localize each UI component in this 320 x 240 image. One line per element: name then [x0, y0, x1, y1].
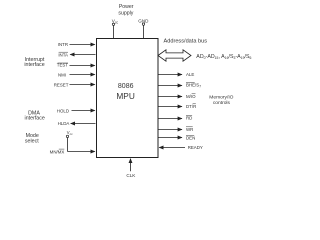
wire WR: [158, 129, 182, 131]
svg-text:AD0-AD15, A16/S3-A19/S6: AD0-AD15, A16/S3-A19/S6: [196, 54, 251, 60]
svg-text:NMI: NMI: [58, 73, 66, 78]
CPU block 8086 MPU U1: [97, 39, 159, 158]
wire NMI: [70, 74, 95, 76]
svg-text:MPU: MPU: [116, 91, 134, 101]
group label Memory/IO controls: [209, 95, 233, 106]
svg-text:RESET: RESET: [54, 83, 69, 88]
wire RESET: [70, 84, 95, 86]
svg-text:BHE/S7: BHE/S7: [186, 83, 201, 89]
pin label TEST: [57, 63, 69, 68]
svg-text:CLK: CLK: [126, 173, 136, 178]
power terminal GND: [138, 18, 149, 38]
svg-text:interface: interface: [25, 116, 45, 122]
group label Mode select: [25, 133, 39, 144]
svg-text:WR: WR: [186, 127, 193, 132]
power terminal Vcc: [112, 18, 119, 38]
wire M/IO: [158, 96, 182, 98]
svg-text:DEN: DEN: [186, 136, 195, 141]
svg-text:GND: GND: [138, 18, 149, 23]
wire INTR: [70, 44, 95, 46]
svg-text:select: select: [25, 138, 39, 144]
svg-text:Address/data bus: Address/data bus: [164, 38, 208, 44]
group label Interrupt interface: [24, 57, 45, 68]
wire HOLD: [72, 110, 95, 112]
wire INTA: [70, 54, 95, 56]
svg-text:READY: READY: [188, 145, 203, 150]
svg-text:MN/MX: MN/MX: [50, 149, 65, 154]
svg-text:HOLD: HOLD: [57, 109, 69, 114]
svg-text:HLDA: HLDA: [58, 121, 70, 126]
svg-text:TEST: TEST: [57, 63, 69, 68]
svg-text:interface: interface: [24, 62, 44, 68]
group label DMA interface: [25, 111, 45, 122]
wire RD: [158, 118, 182, 120]
wire TEST: [70, 65, 95, 67]
label Power supply: [118, 4, 133, 16]
pin label DT/R: [186, 104, 196, 109]
wire DT/R: [158, 106, 182, 108]
pin label DEN: [186, 136, 195, 141]
bus arrow AD bus: [158, 50, 191, 61]
pin label BHE/S7: [186, 83, 201, 89]
wire MN/MX: [68, 151, 95, 153]
svg-text:M/IO: M/IO: [186, 94, 196, 99]
pin label WR: [186, 127, 193, 132]
svg-text:INTR: INTR: [58, 42, 68, 47]
pin label INTA: [58, 52, 68, 57]
svg-text:INTA: INTA: [58, 52, 68, 57]
svg-text:DT/R: DT/R: [186, 104, 196, 109]
svg-text:RD: RD: [186, 116, 192, 121]
wire CLK: [130, 159, 132, 172]
wire ALE: [158, 74, 182, 76]
pin label MN/MX: [50, 149, 65, 154]
wire BHE/S7: [158, 85, 182, 87]
svg-text:controls: controls: [213, 100, 231, 106]
power terminal Vcc at MN/MX: [66, 130, 73, 152]
wire DEN: [158, 137, 182, 139]
svg-text:supply: supply: [118, 10, 133, 16]
svg-text:8086: 8086: [118, 83, 134, 90]
pin label M/IO: [186, 94, 196, 99]
svg-text:Power: Power: [119, 4, 134, 10]
wire READY: [159, 147, 185, 149]
wire HLDA: [71, 123, 96, 125]
svg-text:ALE: ALE: [186, 72, 194, 77]
pin label RD: [186, 116, 192, 121]
svg-text:Memory/IO: Memory/IO: [209, 95, 233, 101]
